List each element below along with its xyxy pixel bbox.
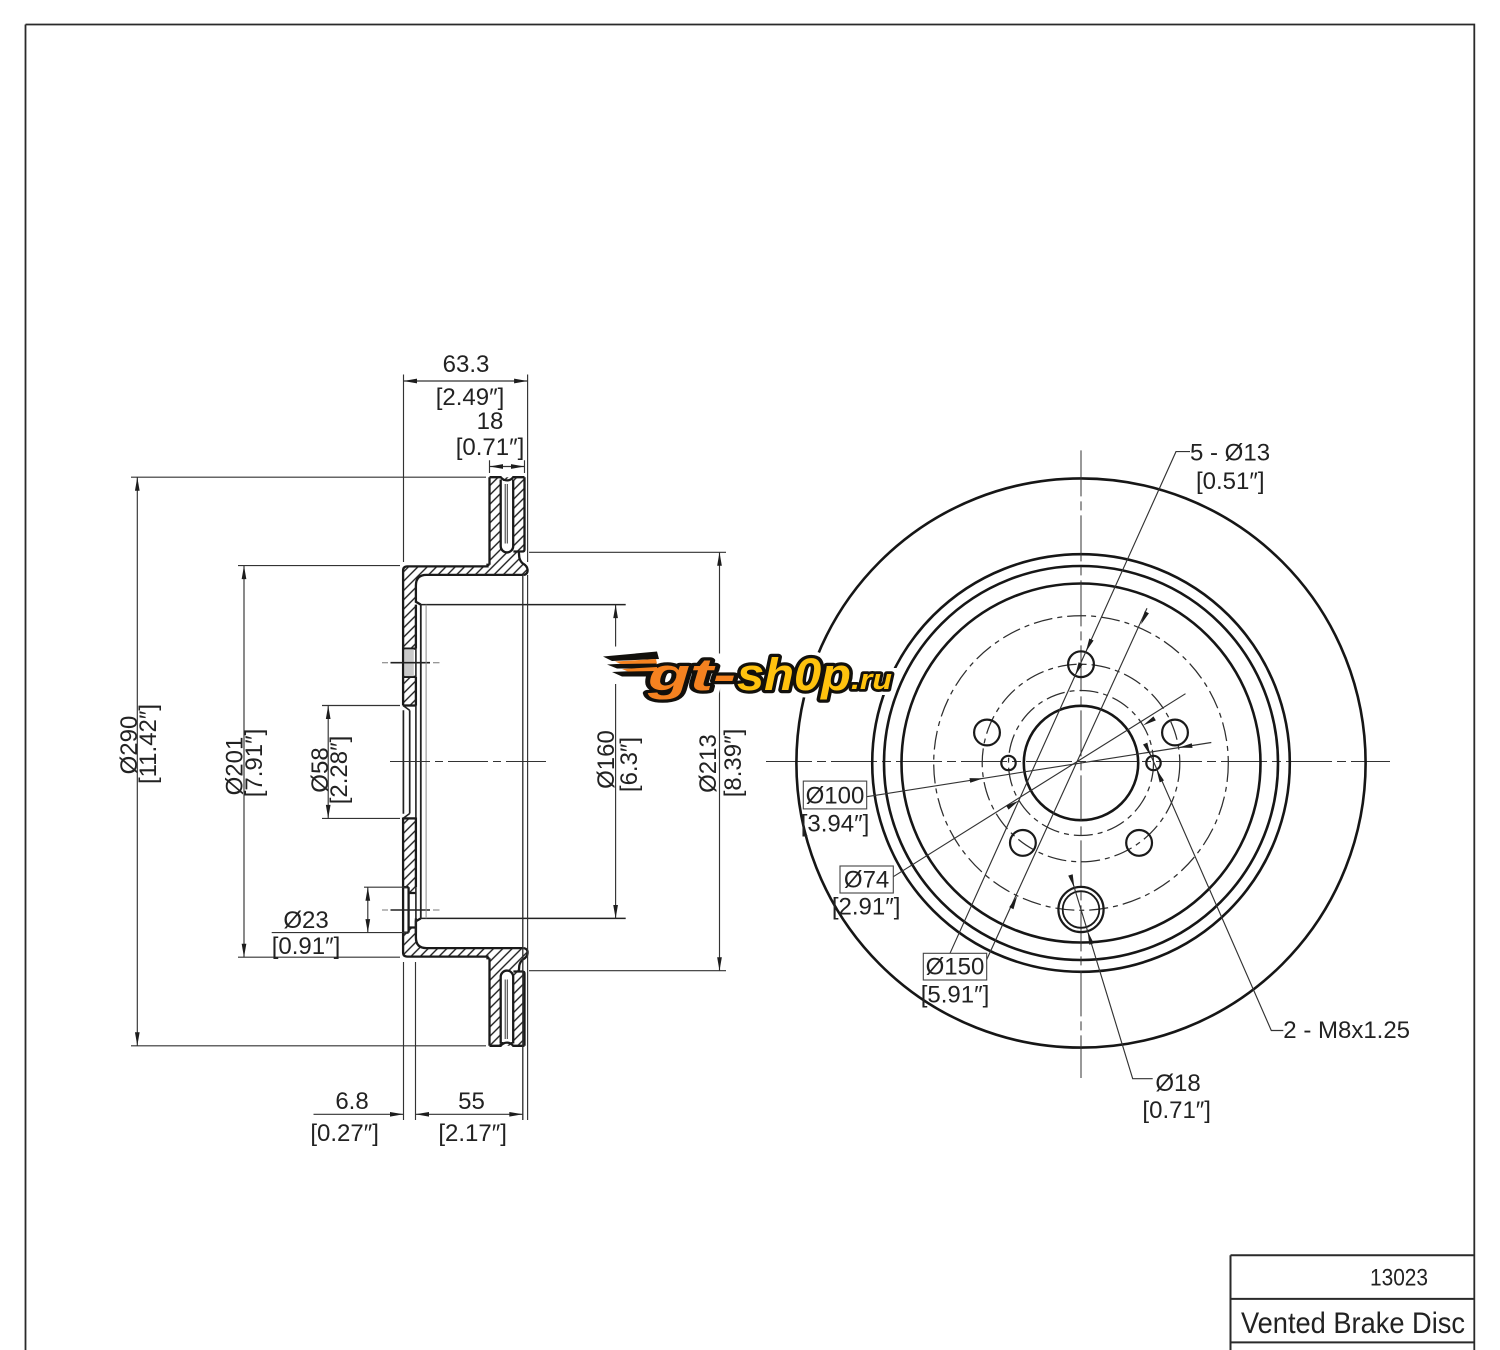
- service hole centerline: [391, 909, 431, 911]
- svg-text:Ø23: Ø23: [283, 907, 328, 934]
- dim 18 extension lines: [490, 460, 525, 473]
- friction ring right face: [513, 477, 524, 551]
- vent inner circle D213: [872, 554, 1290, 972]
- dim 6.8/55 extension lines: [404, 575, 528, 1120]
- service hole M8 right: [1146, 756, 1160, 770]
- friction ring outer edge with vent notch: [490, 477, 525, 480]
- dim 18 line: [490, 466, 525, 468]
- svg-text:Vented Brake Disc: Vented Brake Disc: [1241, 1307, 1465, 1340]
- dim D213 line: [719, 552, 721, 970]
- vent slot: [501, 480, 514, 553]
- hub bore chamfer edges: [403, 706, 410, 819]
- svg-text:[6.3″]: [6.3″]: [616, 737, 643, 792]
- hat cylinder inner surface: [416, 575, 524, 586]
- svg-text:63.3: 63.3: [443, 351, 490, 378]
- svg-text:[2.28″]: [2.28″]: [326, 736, 353, 805]
- svg-text:[5.91″]: [5.91″]: [921, 982, 990, 1009]
- dim D201 extension lines: [238, 566, 400, 958]
- svg-text:[0.27″]: [0.27″]: [310, 1120, 379, 1147]
- dim D290 extension lines: [131, 477, 486, 1046]
- friction ring right face: [513, 972, 524, 1046]
- centerline continues to front view: [766, 761, 1390, 763]
- friction ring left face: [488, 477, 490, 565]
- flange inner face lower segment (top half): [415, 605, 417, 706]
- svg-text:Ø18: Ø18: [1155, 1070, 1200, 1097]
- svg-text:Ø100: Ø100: [806, 783, 865, 810]
- dim D23 extension lines: [272, 887, 407, 932]
- service hole through bore edges (Ø18): [409, 893, 416, 928]
- stud hole 2 D13: [974, 720, 1000, 746]
- vent slot: [501, 971, 514, 1044]
- flange inner face lower segment (bottom half): [415, 818, 417, 933]
- disc outer circle D290: [796, 478, 1365, 1047]
- hat flange circle D201: [884, 566, 1278, 960]
- hat cylinder inner surface: [416, 938, 524, 949]
- dim D58 extension lines: [322, 706, 400, 819]
- svg-text:.ru: .ru: [851, 664, 892, 696]
- dim 63.3 line: [404, 380, 528, 382]
- dim D213 extension lines: [529, 552, 726, 970]
- stud hole 1 D13: [1068, 651, 1094, 677]
- dim D58 line: [327, 706, 329, 819]
- dim D160 line: [615, 605, 617, 919]
- leader D100: [867, 743, 1212, 797]
- svg-text:[2.17″]: [2.17″]: [438, 1120, 507, 1147]
- drum circle: [902, 584, 1261, 943]
- hub bore silhouette lines: [403, 710, 409, 814]
- stud hole 5 D13: [1162, 720, 1188, 746]
- bolt circle D150: [934, 616, 1229, 911]
- svg-text:[7.91″]: [7.91″]: [241, 729, 268, 798]
- drum inner surface silhouette bottom: [421, 917, 626, 919]
- svg-text:gt-: gt-: [646, 649, 736, 700]
- hub bore edge bottom: [403, 817, 416, 819]
- hub bore circle D58: [1024, 706, 1138, 820]
- svg-text:[11.42″]: [11.42″]: [135, 704, 162, 784]
- svg-text:18: 18: [477, 408, 504, 435]
- svg-text:[0.71″]: [0.71″]: [1142, 1097, 1211, 1124]
- svg-text:[2.49″]: [2.49″]: [436, 384, 505, 411]
- svg-text:[0.91″]: [0.91″]: [272, 933, 341, 960]
- service hole counterbore face: [407, 887, 409, 932]
- bolt circle D100: [982, 664, 1180, 862]
- svg-text:[0.51″]: [0.51″]: [1196, 468, 1265, 495]
- vent rib lines: [505, 484, 507, 544]
- drum inner surface silhouette top: [421, 604, 626, 606]
- main horizontal centerline: [390, 761, 550, 763]
- svg-text:[8.39″]: [8.39″]: [720, 729, 747, 798]
- svg-text:Ø213: Ø213: [695, 734, 722, 793]
- svg-text:2 - M8x1.25: 2 - M8x1.25: [1283, 1017, 1410, 1044]
- svg-text:55: 55: [458, 1088, 485, 1115]
- stud hole bore shading: [404, 649, 413, 676]
- svg-text:[3.94″]: [3.94″]: [801, 811, 870, 838]
- svg-text:Ø74: Ø74: [844, 867, 889, 894]
- friction ring outer edge with vent notch: [490, 1043, 525, 1046]
- svg-text:[2.91″]: [2.91″]: [832, 894, 901, 921]
- dim D23 line: [367, 887, 369, 932]
- hat flange outer face: [403, 566, 407, 705]
- leader D150: [987, 608, 1147, 959]
- gt-shop.ru watermark logo: [596, 643, 892, 700]
- dim D290 line: [136, 477, 138, 1046]
- title block table: [1231, 1255, 1475, 1350]
- stud hole centerline: [391, 662, 431, 664]
- svg-text:13023: 13023: [1370, 1265, 1428, 1292]
- svg-text:sh0p: sh0p: [737, 649, 851, 700]
- hat cylinder outer surface: [408, 565, 490, 567]
- vent rib lines: [505, 980, 507, 1040]
- label D100 box: [803, 781, 866, 809]
- hat flange inner face: [416, 918, 421, 937]
- leader 5-D13 to D150 box: [950, 452, 1190, 954]
- view centerline vertical: [1080, 450, 1082, 1078]
- service hole M8 left: [1001, 756, 1015, 770]
- svg-text:Ø150: Ø150: [926, 954, 985, 981]
- section hatch top half: [403, 477, 528, 705]
- drum open end edge / 55 extension: [522, 575, 524, 1120]
- ring to drum relief groove and nose: [519, 948, 528, 971]
- dim 63.3 extension lines: [404, 375, 528, 563]
- bolt circle D74: [1009, 691, 1154, 836]
- hat cylinder outer surface: [408, 957, 490, 959]
- adjuster hole D23 inner chamfer: [1063, 891, 1100, 928]
- hat flange inner face: [416, 586, 421, 605]
- hat flange outer face: [403, 818, 407, 957]
- leader 2-M8x1.25: [1147, 746, 1284, 1031]
- ring to drum relief groove and nose: [519, 552, 528, 575]
- stud hole 4 D13: [1126, 830, 1152, 856]
- friction ring left face: [488, 958, 490, 1046]
- svg-text:5 - Ø13: 5 - Ø13: [1190, 440, 1270, 467]
- leader D18: [1071, 876, 1153, 1079]
- dim 6.8 line: [314, 1113, 404, 1115]
- svg-text:[0.71″]: [0.71″]: [456, 434, 525, 461]
- leader D74: [893, 694, 1185, 877]
- stud hole edges: [403, 649, 416, 677]
- stud hole 3 D13: [1010, 830, 1036, 856]
- flange inner face silhouette through bore: [415, 649, 417, 933]
- dim D201 line: [243, 566, 245, 958]
- label D74 box: [840, 866, 893, 893]
- dim 55 line: [416, 1113, 523, 1115]
- drum corner silhouette lines: [420, 605, 422, 919]
- adjuster hole D23 outer: [1058, 887, 1103, 932]
- svg-text:6.8: 6.8: [335, 1088, 368, 1115]
- hub bore edge top: [403, 704, 416, 706]
- section hatch bottom half: [403, 818, 528, 1046]
- service hole counterbore edges (Ø23): [403, 887, 409, 932]
- label D150 box: [923, 953, 986, 980]
